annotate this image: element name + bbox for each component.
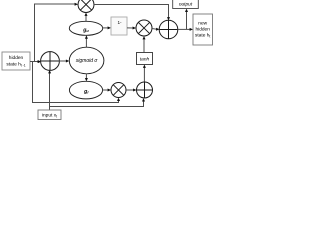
sigmoid ellipse: [69, 47, 104, 74]
box 1-: [111, 17, 127, 35]
svg-text:output: output: [179, 2, 193, 8]
wire x bottom into A3: [50, 98, 146, 106]
wire X3 to A3: [126, 89, 137, 92]
svg-text:1-: 1-: [117, 20, 122, 25]
adder A1 (h + x): [41, 52, 60, 71]
svg-text:sigmoid σ: sigmoid σ: [76, 58, 99, 64]
wire g_u to 1- box: [103, 26, 111, 29]
adder A2 (output sum): [159, 20, 178, 39]
svg-text:gr: gr: [83, 89, 89, 95]
wire tanh to X2: [143, 36, 146, 53]
multiplier X3 (r * h): [111, 83, 126, 98]
svg-text:gu: gu: [82, 27, 89, 33]
wire A2 to new hidden state box: [178, 28, 194, 31]
wire gate-u to X1: [85, 13, 88, 22]
gate ellipse g_r: [69, 81, 102, 99]
wire sigmoid to gate g_u: [85, 35, 88, 47]
wire X2 to adder A2: [152, 28, 160, 31]
svg-text:tanh: tanh: [140, 56, 150, 62]
wire h bottom into X3: [116, 98, 120, 103]
wire h branch up: [35, 3, 79, 62]
svg-text:new: new: [198, 21, 207, 26]
svg-text:input xt: input xt: [42, 113, 57, 119]
wire branch up to output box: [185, 9, 188, 30]
box tanh: [137, 53, 153, 65]
multiplier X2 ((1-u) * htilde): [136, 20, 152, 36]
box new hidden state h_t: [193, 14, 213, 45]
wire h branch down: [33, 62, 117, 103]
gate ellipse g_u: [69, 21, 102, 35]
svg-text:hidden: hidden: [195, 26, 210, 32]
box output: [173, 0, 199, 9]
box input x_t: [38, 110, 61, 120]
wire A1 to sigmoid: [59, 60, 69, 63]
wire X1 to adder A2: [94, 5, 170, 21]
multiplier X1 (u * h) top-left: [78, 0, 94, 13]
svg-text:state ht: state ht: [195, 32, 210, 38]
wire 1- box to X2: [127, 27, 136, 30]
svg-text:hidden: hidden: [9, 55, 24, 61]
wire input x up to adder A1: [48, 70, 51, 110]
adder A3 (r*h + x): [137, 82, 153, 98]
wire sigmoid to gate g_r: [85, 74, 88, 82]
wire hidden state to adder: [30, 60, 41, 63]
wire g_r to X3: [103, 89, 111, 92]
box hidden state h_{t-1}: [2, 52, 30, 70]
wire adder A3 to tanh: [143, 65, 146, 83]
